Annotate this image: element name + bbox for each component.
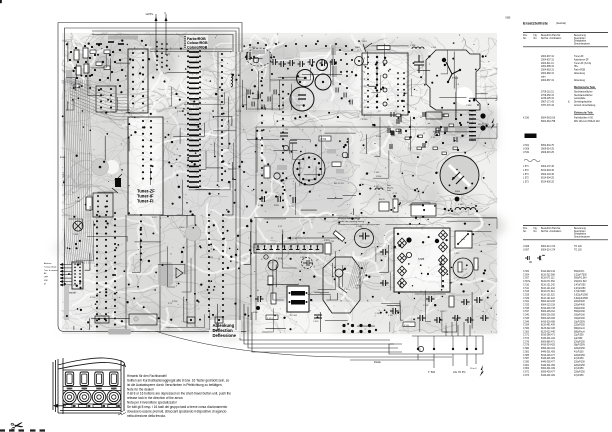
svg-text:U 906: U 906 — [523, 246, 530, 248]
svg-text:160pF/160: 160pF/160 — [574, 308, 586, 310]
svg-text:Désignation: Désignation — [574, 233, 587, 236]
svg-text:220pF/250: 220pF/250 — [574, 372, 586, 374]
svg-text:Farbbildröhre A 56: Farbbildröhre A 56 — [574, 117, 593, 120]
svg-text:Benennung: Benennung — [574, 35, 586, 37]
svg-text:2µF/350: 2µF/350 — [574, 338, 583, 340]
svg-text:Bestell-Nr./Part-No.: Bestell-Nr./Part-No. — [541, 227, 561, 230]
svg-text:0,47µF/250: 0,47µF/250 — [574, 288, 586, 290]
svg-text:8446-301.459: 8446-301.459 — [541, 351, 556, 353]
svg-text:C 529: C 529 — [313, 321, 319, 323]
svg-text:Sollten am Kurzhubtastenaggreg: Sollten am Kurzhubtastenaggregat alle 8 … — [127, 378, 230, 382]
svg-text:8006-226.018: 8006-226.018 — [541, 318, 556, 320]
svg-text:f 585: f 585 — [505, 17, 511, 20]
svg-text:2004-667.31: 2004-667.31 — [541, 80, 555, 82]
svg-text:8116-121.622: 8116-121.622 — [541, 294, 555, 296]
svg-text:C 529: C 529 — [523, 298, 530, 300]
svg-text:nella direzione della freccia.: nella direzione della freccia. — [127, 414, 166, 418]
svg-text:2609-015.25: 2609-015.25 — [541, 152, 555, 154]
svg-text:Réf.No. d'ordination: Réf.No. d'ordination — [541, 37, 562, 40]
svg-text:2609-014.25: 2609-014.25 — [541, 148, 555, 150]
svg-text:suPPL.: suPPL. — [146, 12, 155, 16]
svg-text:8016-236.718: 8016-236.718 — [541, 308, 556, 310]
svg-text:220pF/250: 220pF/250 — [574, 361, 586, 363]
svg-text:8416-316.408: 8416-316.408 — [541, 321, 556, 323]
svg-text:release lock in the direction: release lock in the direction of the arr… — [127, 396, 183, 400]
svg-text:TO 120: TO 120 — [574, 246, 582, 248]
svg-text:L 573: L 573 — [523, 182, 529, 184]
svg-text:Benennung: Benennung — [574, 228, 586, 230]
svg-text:C 507: C 507 — [523, 278, 530, 280]
svg-text:220pF/250: 220pF/250 — [574, 365, 586, 367]
svg-text:Tens. di sintonia: Tens. di sintonia — [44, 269, 59, 272]
svg-text:F 513: F 513 — [267, 318, 273, 320]
svg-text:Pos.: Pos. — [523, 35, 528, 37]
svg-text:F605: F605 — [455, 191, 461, 193]
svg-text:8056-439.477: 8056-439.477 — [541, 372, 556, 374]
svg-text:Fig.: Fig. — [534, 35, 538, 37]
svg-text:C 540: C 540 — [523, 315, 530, 317]
svg-text:C 546: C 546 — [523, 321, 530, 323]
svg-text:220pF/250: 220pF/250 — [574, 348, 586, 350]
svg-text:220pF/400: 220pF/400 — [574, 301, 586, 303]
svg-text:U 907: U 907 — [523, 250, 530, 252]
svg-text:Leiterplatte: Leiterplatte — [574, 97, 586, 100]
svg-text:C 537: C 537 — [523, 311, 530, 313]
svg-text:Ersatzteilliste: Ersatzteilliste — [523, 21, 549, 26]
svg-text:Antrieb Umschaltung: Antrieb Umschaltung — [574, 104, 596, 107]
svg-text:9302-137.45: 9302-137.45 — [541, 166, 555, 168]
svg-text:8116-491.409: 8116-491.409 — [541, 325, 555, 327]
svg-text:C 741: C 741 — [329, 241, 335, 243]
svg-text:0907-171.43: 0907-171.43 — [541, 102, 555, 104]
svg-text:47µF/250: 47µF/250 — [574, 358, 584, 360]
svg-text:C 547: C 547 — [296, 105, 303, 107]
svg-text:K 530: K 530 — [523, 118, 530, 120]
svg-text:220pF/250: 220pF/250 — [574, 325, 586, 327]
svg-text:dovessero essere premuti, sblo: dovessero essere premuti, sbloccarli spo… — [127, 410, 227, 414]
svg-text:C 528: C 528 — [523, 294, 530, 296]
svg-text:C 502: C 502 — [523, 271, 530, 273]
svg-text:Steckkartenfächer: Steckkartenfächer — [574, 90, 593, 93]
svg-text:2004-607.31: 2004-607.31 — [541, 59, 555, 61]
svg-text:C 560: C 560 — [300, 257, 306, 259]
svg-text:C 554: C 554 — [523, 325, 530, 327]
svg-text:R 613: R 613 — [179, 227, 185, 229]
svg-text:8054-634.75: 8054-634.75 — [541, 145, 555, 147]
svg-text:8116-121.242: 8116-121.242 — [541, 288, 555, 290]
svg-text:C 580: C 580 — [523, 348, 530, 350]
svg-text:R 571: R 571 — [165, 54, 171, 56]
svg-text:560pF/1%: 560pF/1% — [574, 271, 584, 273]
svg-text:HF+: HF+ — [574, 66, 579, 68]
svg-text:C 528: C 528 — [391, 248, 397, 250]
svg-text:C 535: C 535 — [73, 234, 79, 236]
svg-text:8064-223.218: 8064-223.218 — [541, 301, 556, 303]
svg-text:8446-301.409: 8446-301.409 — [541, 358, 556, 360]
svg-text:C 711: C 711 — [236, 111, 242, 113]
svg-text:U 506: U 506 — [523, 148, 530, 150]
svg-text:FP 561: FP 561 — [290, 315, 298, 317]
svg-text:F 521: F 521 — [404, 325, 410, 327]
svg-text:Steckkartenfächer: Steckkartenfächer — [574, 94, 593, 97]
svg-text:160pF/160: 160pF/160 — [574, 318, 586, 320]
svg-text:Fig.: Fig. — [534, 228, 538, 230]
svg-text:BR/BK: BR/BK — [60, 157, 66, 159]
svg-text:47µF/250: 47µF/250 — [574, 368, 584, 370]
svg-text:C 560: C 560 — [523, 328, 530, 330]
svg-text:47µF/250: 47µF/250 — [574, 375, 584, 377]
svg-text:8116-121.422: 8116-121.422 — [541, 298, 555, 300]
svg-text:C 585: C 585 — [523, 355, 530, 357]
svg-text:8304-214.174: 8304-214.174 — [541, 246, 556, 248]
svg-text:C 504: C 504 — [523, 274, 530, 276]
svg-text:8004-063.010: 8004-063.010 — [541, 118, 556, 120]
svg-text:C 515: C 515 — [523, 291, 530, 293]
svg-text:AG 70 PC: AG 70 PC — [453, 370, 466, 374]
svg-text:Pos.: Pos. — [523, 228, 528, 230]
svg-text:Tuner-ZF (S-CA): Tuner-ZF (S-CA) — [574, 62, 591, 65]
svg-text:8014-605.25: 8014-605.25 — [541, 182, 555, 184]
svg-text:C 531: C 531 — [208, 257, 214, 259]
svg-text:T 510: T 510 — [344, 289, 350, 291]
svg-text:No.: No. — [534, 38, 538, 40]
svg-text:7/8 P+F: 7/8 P+F — [63, 171, 65, 178]
svg-text:Farb+RGB: Farb+RGB — [574, 69, 586, 72]
svg-text:8116-322.008: 8116-322.008 — [541, 274, 555, 276]
svg-text:0,22µF/7500: 0,22µF/7500 — [574, 274, 587, 276]
svg-text:220pF/250: 220pF/250 — [574, 341, 586, 343]
svg-text:L 543: L 543 — [458, 204, 464, 206]
svg-text:160pF/1,5kV: 160pF/1,5kV — [574, 281, 587, 283]
svg-text:EN 29: EN 29 — [379, 199, 385, 201]
svg-text:C 562: C 562 — [523, 331, 530, 333]
svg-text:C 861: C 861 — [523, 365, 530, 367]
svg-text:Description: Description — [574, 37, 586, 40]
svg-text:680pF/soV: 680pF/soV — [574, 331, 585, 333]
svg-text:8004-064.758: 8004-064.758 — [541, 121, 556, 123]
svg-text:C 510: C 510 — [523, 284, 530, 286]
svg-text:10µF/250V: 10µF/250V — [574, 321, 586, 323]
svg-text:TO 120: TO 120 — [574, 250, 582, 252]
svg-text:Désignation: Désignation — [574, 40, 587, 43]
svg-text:8064-301.439: 8064-301.439 — [541, 368, 556, 370]
svg-text:0,022µF/1500: 0,022µF/1500 — [574, 294, 589, 296]
svg-text:C 531: C 531 — [523, 301, 530, 303]
svg-text:Elektrische Teile: Elektrische Teile — [574, 111, 593, 114]
svg-text:560pF/1,5kV: 560pF/1,5kV — [574, 278, 587, 280]
svg-text:No.: No. — [523, 231, 527, 233]
svg-text:220pF/400: 220pF/400 — [574, 305, 586, 307]
svg-text:8006-886.471: 8006-886.471 — [541, 341, 556, 343]
svg-text:8125-622.445: 8125-622.445 — [541, 328, 556, 330]
svg-text:8416-324.425: 8416-324.425 — [541, 345, 556, 347]
svg-text:C 512: C 512 — [454, 253, 460, 255]
svg-text:Tuner-ZF: Tuner-ZF — [574, 55, 584, 58]
svg-text:L 572: L 572 — [523, 178, 529, 180]
svg-text:U 501: U 501 — [523, 145, 530, 147]
svg-text:R 901: R 901 — [376, 136, 382, 138]
svg-text:8414-392.143: 8414-392.143 — [541, 271, 556, 273]
svg-text:2004-607.41: 2004-607.41 — [541, 56, 555, 58]
svg-text:8116-121.242: 8116-121.242 — [541, 284, 555, 286]
svg-text:160pF/160: 160pF/160 — [574, 315, 586, 317]
svg-text:8116-071.612: 8116-071.612 — [541, 291, 555, 293]
svg-text:L 576: L 576 — [410, 45, 416, 47]
svg-text:Drehsiegelachtler: Drehsiegelachtler — [574, 101, 592, 104]
svg-text:C 533: C 533 — [466, 105, 472, 107]
svg-text:22µF/250: 22µF/250 — [574, 335, 584, 337]
svg-text:C 863: C 863 — [523, 368, 530, 370]
svg-text:8116-071.652: 8116-071.652 — [541, 281, 555, 283]
svg-text:Diode: Diode — [374, 360, 381, 364]
svg-text:L 571: L 571 — [523, 166, 529, 168]
svg-text:C 519: C 519 — [297, 168, 303, 170]
svg-text:8446-301.432: 8446-301.432 — [541, 338, 556, 340]
svg-text:58µF/250V: 58µF/250V — [574, 345, 586, 347]
svg-text:2709-250.31: 2709-250.31 — [541, 95, 555, 97]
svg-text:C 535: C 535 — [523, 308, 530, 310]
svg-text:C 511: C 511 — [523, 288, 530, 290]
svg-text:0,47µF/250: 0,47µF/250 — [574, 284, 586, 286]
svg-text:Ablenkung: Ablenkung — [574, 72, 586, 75]
svg-text:C 507a: C 507a — [523, 281, 531, 283]
svg-text:4239-425.31: 4239-425.31 — [541, 98, 555, 100]
svg-text:K 531: K 531 — [374, 186, 380, 188]
svg-text:2004-611.41: 2004-611.41 — [541, 63, 554, 65]
svg-text:8014-604.25: 8014-604.25 — [541, 178, 555, 180]
svg-text:Se tutti gli 8 resp. i 16 tast: Se tutti gli 8 resp. i 16 tasti del grup… — [127, 405, 228, 409]
svg-text:R 536: R 536 — [172, 301, 178, 303]
svg-text:L 571: L 571 — [523, 174, 529, 176]
svg-text:8446-305.477: 8446-305.477 — [541, 361, 556, 363]
svg-text:2004-663.31: 2004-663.31 — [541, 70, 555, 72]
svg-text:8014-603.36: 8014-603.36 — [541, 170, 555, 172]
svg-text:220pF/250: 220pF/250 — [574, 355, 586, 357]
svg-text:C 576: C 576 — [523, 341, 530, 343]
svg-text:2004-685.31: 2004-685.31 — [541, 66, 555, 68]
svg-text:0,022µF/1500: 0,022µF/1500 — [574, 298, 589, 300]
svg-text:8125-622.445: 8125-622.445 — [541, 331, 556, 333]
svg-text:U 531: U 531 — [523, 152, 530, 154]
svg-text:2709-110.31: 2709-110.31 — [541, 91, 554, 93]
svg-text:8016-436.477: 8016-436.477 — [541, 355, 556, 357]
svg-text:Kabeltuner-ZF: Kabeltuner-ZF — [574, 58, 589, 61]
svg-text:Mechanische Teile: Mechanische Teile — [574, 86, 596, 89]
svg-text:8016-286.471: 8016-286.471 — [541, 335, 556, 337]
svg-text:Deflessione: Deflessione — [213, 333, 237, 338]
svg-text:IC 505: IC 505 — [249, 47, 256, 49]
svg-text:Nota per il rivenditore specia: Nota per il rivenditore specializzato! — [127, 401, 177, 405]
svg-text:DIN 104-12 A 550+R 202: DIN 104-12 A 550+R 202 — [574, 120, 600, 123]
svg-text:C 587: C 587 — [523, 358, 530, 360]
svg-text:C 526: C 526 — [356, 226, 363, 228]
svg-text:C 582: C 582 — [374, 172, 380, 174]
svg-text:R110: R110 — [90, 205, 92, 211]
svg-text:C 578: C 578 — [523, 345, 530, 347]
svg-text:3787-470.43: 3787-470.43 — [541, 105, 555, 107]
svg-text:Denominazione: Denominazione — [574, 44, 591, 46]
svg-text:C 590: C 590 — [523, 361, 530, 363]
svg-text:Ω: Ω — [419, 349, 421, 352]
svg-text:Picture tube aquadag coating: Picture tube aquadag coating — [338, 220, 364, 223]
svg-text:Ablenkung: Ablenkung — [574, 79, 586, 82]
svg-text:C 571: C 571 — [523, 335, 530, 337]
svg-text:Bildröhre Aquadag Belag: Bildröhre Aquadag Belag — [338, 217, 360, 220]
svg-text:T: 520: T: 520 — [428, 370, 436, 374]
svg-text:L 572: L 572 — [523, 170, 529, 172]
svg-text:8116-071.112: 8116-071.112 — [541, 278, 555, 280]
svg-text:8446-301.409: 8446-301.409 — [541, 375, 556, 377]
svg-text:R 560: R 560 — [362, 119, 368, 121]
svg-text:If all 8 or 16 buttons are dep: If all 8 or 16 buttons are depressed on … — [127, 392, 231, 396]
svg-text:oder: oder — [541, 75, 546, 78]
svg-text:560pF/160: 560pF/160 — [574, 311, 586, 313]
svg-text:C 517: C 517 — [388, 315, 394, 317]
svg-text:T 534: T 534 — [452, 77, 459, 80]
svg-text:Denominazione: Denominazione — [574, 237, 591, 239]
svg-text:2004-682.31: 2004-682.31 — [541, 73, 555, 75]
svg-text:C 572: C 572 — [523, 338, 530, 340]
svg-text:C 871: C 871 — [523, 372, 530, 374]
svg-text:No.: No. — [523, 38, 527, 40]
svg-text:20 in F: 20 in F — [470, 368, 477, 370]
svg-text:Tuner-FI: Tuner-FI — [137, 199, 153, 204]
svg-text:47µF/250: 47µF/250 — [574, 351, 584, 353]
svg-text:8006-226.018: 8006-226.018 — [541, 315, 556, 317]
svg-text:8304-214.174: 8304-214.174 — [541, 250, 556, 252]
svg-text:C 533: C 533 — [523, 305, 530, 307]
svg-text:ist die Austastsperre durch Ve: ist die Austastsperre durch Verschieben … — [127, 383, 223, 387]
svg-text:8006-206.012: 8006-206.012 — [541, 311, 556, 313]
svg-text:Abstimm.: Abstimm. — [44, 262, 52, 265]
svg-text:C 582: C 582 — [523, 351, 530, 353]
svg-text:S 505: S 505 — [418, 258, 425, 261]
svg-text:Bestell-Nr./Part-No.: Bestell-Nr./Part-No. — [541, 34, 561, 37]
svg-text:R 517: R 517 — [152, 217, 158, 219]
svg-text:C 707: C 707 — [283, 129, 289, 131]
svg-text:Hinweis für den Fachhandel!: Hinweis für den Fachhandel! — [127, 374, 167, 378]
svg-text:0,7pF/1500: 0,7pF/1500 — [574, 291, 586, 293]
svg-text:8064-223.218: 8064-223.218 — [541, 305, 556, 307]
svg-text:(Austria): (Austria) — [556, 21, 566, 25]
svg-text:8056-446.412: 8056-446.412 — [541, 348, 556, 350]
svg-text:2502-103.45: 2502-103.45 — [541, 174, 555, 176]
svg-text:Description: Description — [574, 230, 586, 233]
svg-text:Tuning voltage: Tuning voltage — [44, 265, 56, 268]
svg-text:C 873: C 873 — [523, 375, 530, 377]
svg-text:R 708: R 708 — [90, 297, 96, 299]
svg-text:No.: No. — [534, 231, 538, 233]
svg-text:Folie: Folie — [387, 190, 391, 192]
svg-text:RG 70 TO: RG 70 TO — [334, 183, 344, 185]
svg-text:R 304: R 304 — [376, 176, 382, 178]
svg-text:C 545: C 545 — [523, 318, 530, 320]
svg-text:T 505: T 505 — [75, 201, 81, 203]
svg-text:Réf.No. d'ordination: Réf.No. d'ordination — [541, 230, 562, 233]
svg-text:C 524: C 524 — [423, 305, 429, 307]
svg-text:8446-301.459: 8446-301.459 — [541, 365, 556, 367]
svg-text:680pF/soV: 680pF/soV — [574, 328, 585, 330]
